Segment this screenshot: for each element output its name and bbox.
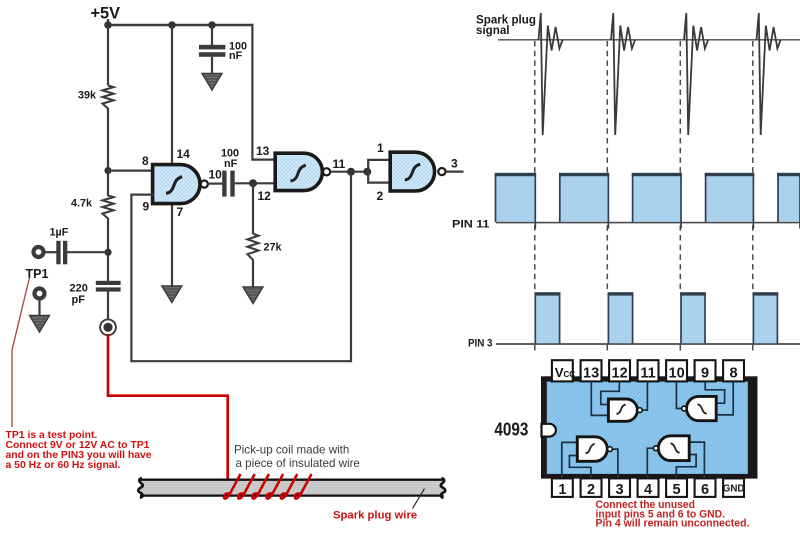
dashed timing line 3: [679, 41, 681, 292]
IC gate D bubble: [653, 446, 658, 451]
wire 27k to ground: [252, 260, 254, 288]
spark spike 2: [611, 13, 635, 135]
pin11 pulse 3: [632, 173, 682, 229]
wire pin14 from rail: [171, 25, 173, 166]
IC gate C body: [577, 437, 607, 462]
capacitor C 1uF plates: [56, 241, 60, 264]
IC 4093 interior: [547, 382, 748, 474]
IC bottom pin box 3: [609, 478, 630, 497]
svg-text:+5V: +5V: [91, 4, 121, 23]
nand gate U1c schmitt mark: [405, 164, 420, 180]
testpoint TP1 ring: [35, 289, 45, 299]
wire pin3 baseline: [496, 343, 800, 345]
dashed timing line 2: [606, 41, 608, 292]
svg-text:PIN 3: PIN 3: [468, 338, 493, 350]
node pin12 junction: [249, 179, 257, 187]
pin11 pulse 5: [777, 173, 800, 229]
node pin8 junction: [104, 167, 111, 174]
IC wire pin1 to gateC: [562, 442, 578, 478]
IC wire pin6 to gateD: [689, 442, 704, 478]
pointer spark plug wire: [413, 489, 425, 509]
wire TP1 to ground: [38, 300, 40, 317]
terminal input ring: [34, 247, 44, 257]
IC bottom pin box 1: [552, 478, 573, 497]
dashed timing line 4: [752, 41, 754, 292]
spark spike 3: [684, 13, 708, 135]
svg-text:3: 3: [451, 157, 458, 171]
IC top pin box 9: [695, 360, 716, 381]
svg-text:a piece of insulated wire: a piece of insulated wire: [236, 457, 360, 470]
svg-text:9: 9: [701, 366, 709, 382]
IC gate B bubble: [682, 406, 687, 411]
svg-text:Pick-up coil made with: Pick-up coil made with: [234, 444, 349, 457]
resistor 39k: [103, 86, 114, 109]
wire U1b output: [330, 171, 369, 173]
wire rail to 100nF: [211, 25, 213, 46]
svg-text:6: 6: [701, 482, 709, 498]
svg-text:Spark plug wire: Spark plug wire: [333, 510, 417, 522]
capacitor C 100nF decoupling plates: [199, 45, 225, 50]
wire 220pF to coil connector: [107, 292, 109, 321]
resistor 4.7k: [103, 196, 114, 219]
nand gate U1b output bubble: [323, 168, 330, 175]
pin3 pulse 3: [680, 292, 706, 344]
IC gate D schmitt: [670, 443, 679, 452]
pin3 pulse 1: [535, 292, 561, 344]
IC wire gateD out to pin4: [647, 448, 653, 478]
wire rail down to 39k: [107, 25, 109, 86]
svg-text:7: 7: [177, 205, 184, 219]
svg-text:signal: signal: [476, 24, 510, 37]
pickup coil turns: [224, 474, 241, 499]
resistor 27k: [248, 234, 259, 260]
nand gate U1c body: [390, 152, 434, 191]
svg-text:11: 11: [640, 366, 655, 382]
svg-text:Pin 4 will remain unconnected.: Pin 4 will remain unconnected.: [596, 518, 750, 530]
wire 1uF to node: [67, 251, 108, 253]
IC bottom pin box GND: [723, 478, 744, 497]
IC gate A body: [608, 399, 637, 421]
IC gate A bubble: [637, 408, 642, 413]
IC bottom pin box 2: [581, 478, 602, 497]
IC top pin box 13: [581, 360, 602, 381]
connector pickup coil: [100, 319, 116, 335]
IC top pin box 8: [723, 360, 744, 381]
IC bottom pin box 5: [666, 478, 687, 497]
svg-text:a 50 Hz or 60 Hz signal.: a 50 Hz or 60 Hz signal.: [6, 460, 121, 471]
svg-text:8: 8: [730, 366, 738, 382]
nand gate U1a output bubble: [201, 181, 208, 188]
wire red pickup lead: [108, 334, 228, 480]
ground TP1: [30, 316, 50, 333]
svg-text:1µF: 1µF: [50, 227, 69, 239]
node rail-left junction: [104, 21, 112, 29]
IC top pin box 10: [666, 360, 687, 381]
svg-text:12: 12: [612, 366, 628, 382]
svg-text:nF: nF: [229, 50, 243, 62]
IC gate C schmitt: [585, 444, 594, 453]
pin11 pulse 1: [495, 173, 536, 229]
IC top pin box Vcc: [552, 360, 573, 381]
svg-text:39k: 39k: [78, 90, 97, 102]
IC wire pin5 to gateD: [676, 455, 696, 479]
svg-text:10: 10: [669, 366, 685, 382]
node rail-pin14 junction: [168, 21, 176, 29]
svg-text:5: 5: [673, 482, 681, 498]
svg-text:12: 12: [258, 189, 272, 203]
IC gate D body: [658, 436, 689, 461]
IC wire pin8 to gateB: [716, 382, 733, 415]
svg-text:3: 3: [616, 482, 624, 498]
svg-text:11: 11: [333, 157, 346, 171]
wire feedback loop: [131, 172, 351, 362]
svg-text:10: 10: [209, 168, 223, 182]
spark spike 4: [757, 13, 781, 135]
capacitor C 220pF plates: [96, 281, 121, 285]
svg-text:1: 1: [377, 141, 384, 155]
svg-text:13: 13: [583, 366, 599, 382]
spark plug bar left break: [138, 478, 143, 498]
nand gate U1b body: [275, 153, 322, 190]
wire spark baseline: [498, 39, 800, 41]
wire pin11 baseline overlay: [496, 222, 800, 224]
pin11 pulse 4: [705, 173, 754, 229]
node 1uF junction: [104, 249, 111, 256]
wire ring to 1uF: [46, 251, 58, 253]
nand gate U1a schmitt mark: [166, 177, 182, 193]
IC wire gateA out to pin11: [642, 382, 647, 411]
wire cap to pin12: [235, 182, 276, 184]
svg-text:2: 2: [377, 189, 384, 203]
IC gate C bubble: [608, 447, 613, 452]
nand gate U1b schmitt mark: [290, 165, 305, 181]
dashed timing line 1: [534, 41, 536, 292]
IC gate B schmitt: [697, 404, 706, 413]
spark spike 1: [539, 13, 563, 135]
wire pin3 baseline overlay: [496, 343, 800, 345]
IC notch: [542, 424, 556, 437]
wire pin11 baseline: [496, 222, 800, 224]
IC 4093 body: [541, 376, 758, 478]
svg-text:27k: 27k: [264, 242, 283, 254]
IC bottom pin box 6: [695, 478, 716, 497]
wire rail right drop to pin13: [252, 24, 276, 160]
node bracket junction: [363, 168, 371, 176]
red pointer line TP1: [12, 278, 30, 428]
IC wire gateB out to pin10: [676, 382, 681, 409]
capacitor C 100nF coupling plates: [222, 171, 226, 197]
IC wire pin13 to gateA: [591, 382, 608, 416]
wire pin12 node to 27k: [252, 183, 254, 234]
svg-text:14: 14: [177, 147, 191, 161]
wire 100nF to ground: [211, 57, 213, 74]
svg-text:GND: GND: [723, 484, 745, 495]
wire pin8: [108, 170, 154, 172]
svg-text:pF: pF: [72, 294, 86, 306]
wire U1c output: [446, 171, 464, 173]
wire U1a output to cap: [208, 183, 223, 185]
wire top +5V rail: [107, 24, 254, 26]
IC bottom pin box 4: [638, 478, 659, 497]
svg-text:4: 4: [644, 482, 652, 498]
wire 39k to pin8 node: [107, 108, 109, 196]
IC wire gateC out to pin3: [612, 449, 618, 478]
spark plug wire bar: [140, 480, 444, 495]
svg-text:13: 13: [256, 144, 270, 158]
IC top pin box 12: [609, 360, 630, 381]
nand gate U1a body: [153, 165, 200, 204]
svg-text:PIN 11: PIN 11: [452, 218, 490, 230]
spark plug bar right break: [441, 478, 446, 498]
IC wire pin9 to gateB: [705, 382, 724, 404]
IC wire pin12 to gateA: [601, 382, 620, 405]
wire 4.7k to 220pF: [107, 218, 109, 282]
wire input bracket: [368, 160, 391, 183]
IC gate A schmitt: [616, 404, 625, 413]
wire +5V stub: [107, 19, 109, 26]
IC top pin box 11: [638, 360, 659, 381]
ground 100nF: [202, 74, 222, 91]
pin3 pulse 4: [753, 292, 779, 344]
IC gate B body: [687, 396, 717, 420]
svg-text:4.7k: 4.7k: [71, 198, 93, 210]
ground 27k: [243, 287, 263, 304]
svg-text:4093: 4093: [494, 419, 528, 440]
nand gate U1c output bubble: [438, 168, 445, 175]
node feedback junction: [347, 168, 355, 176]
svg-text:2: 2: [587, 482, 595, 498]
svg-text:nF: nF: [224, 158, 238, 170]
svg-text:9: 9: [143, 200, 150, 214]
pin11 pulse 2: [559, 173, 609, 229]
svg-text:8: 8: [142, 154, 149, 168]
svg-text:1: 1: [558, 482, 566, 498]
ground pin7: [162, 286, 182, 303]
svg-text:220: 220: [70, 283, 88, 295]
IC wire pin2 to gateC: [569, 456, 591, 479]
wire pin7 to ground: [171, 203, 173, 287]
node rail-cap junction: [208, 21, 216, 29]
pin3 pulse 2: [608, 292, 634, 344]
